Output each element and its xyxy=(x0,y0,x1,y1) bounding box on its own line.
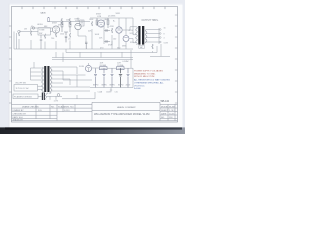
label LEVEL xyxy=(31,24,49,28)
filament wire xyxy=(38,95,42,97)
pilot lamp PL1 xyxy=(57,94,60,97)
svg-text:16: 16 xyxy=(164,28,166,30)
choke L1 xyxy=(100,67,108,70)
svg-text:1M: 1M xyxy=(24,29,27,31)
resistor R8 network xyxy=(80,20,85,26)
svg-text:HEATH COMPANY: HEATH COMPANY xyxy=(117,106,136,109)
label 5V4G xyxy=(79,66,85,68)
red note text xyxy=(134,69,163,78)
svg-text:117V 60 CY. AC: 117V 60 CY. AC xyxy=(16,87,30,90)
feedback wire xyxy=(63,49,153,62)
svg-text:TRACED BY: TRACED BY xyxy=(13,118,24,121)
svg-text:470K: 470K xyxy=(110,26,115,28)
tube V1 6SN7 xyxy=(52,26,59,33)
svg-text:OUTPUT TRNS.: OUTPUT TRNS. xyxy=(142,20,159,22)
svg-text:LEVEL: LEVEL xyxy=(37,24,43,26)
svg-text:TONE: TONE xyxy=(39,30,45,32)
svg-text:1 OF 1: 1 OF 1 xyxy=(169,110,176,112)
filter capacitor C10 xyxy=(127,68,130,87)
svg-text:GTB: GTB xyxy=(97,16,102,18)
coupling capacitor C5 xyxy=(104,40,110,42)
tube V2 6SN7 xyxy=(75,23,81,29)
output transformer T2 secondary winding xyxy=(145,30,147,44)
svg-text:8MFD: 8MFD xyxy=(110,85,116,87)
svg-text:GTB: GTB xyxy=(75,21,80,23)
resistor R10 xyxy=(96,18,98,26)
svg-text:6AU6: 6AU6 xyxy=(41,12,47,15)
filter capacitor C7 xyxy=(103,68,106,87)
label V1 xyxy=(52,23,58,25)
svg-text:470K: 470K xyxy=(108,45,113,47)
svg-text:SW: SW xyxy=(39,33,42,35)
svg-text:10-55: 10-55 xyxy=(169,113,175,115)
svg-text:NO.: NO. xyxy=(51,106,55,108)
ground rail (amp) xyxy=(14,48,133,50)
resistor R4 xyxy=(44,34,46,49)
output tube V5 5881 xyxy=(123,36,129,42)
svg-text:(2) 5881: (2) 5881 xyxy=(108,15,116,17)
resistor R11 xyxy=(107,18,109,28)
label box xyxy=(139,45,145,48)
ground symbol xyxy=(110,88,112,93)
coupling capacitor C4 xyxy=(104,29,110,31)
output transformer T2 core xyxy=(138,26,144,45)
B+ wire between chokes xyxy=(107,67,117,69)
screen wires xyxy=(104,18,126,49)
power transformer T1 core xyxy=(44,66,49,92)
feedback resistor R14 xyxy=(152,44,154,53)
svg-text:DRAWN CHECKED: DRAWN CHECKED xyxy=(22,105,39,108)
left section vertical wires xyxy=(14,32,22,50)
filament note text xyxy=(14,95,32,98)
label 6.3V xyxy=(47,93,59,102)
svg-text:5V4G: 5V4G xyxy=(79,66,85,68)
terminal labels xyxy=(164,28,169,45)
svg-text:DWG. NO.: DWG. NO. xyxy=(64,106,74,108)
capacitor value labels xyxy=(93,85,131,87)
B+ rail (right) xyxy=(90,17,133,19)
pilot lamp wire xyxy=(47,96,63,100)
svg-text:8MFD: 8MFD xyxy=(93,85,99,87)
svg-text:NO.: NO. xyxy=(161,117,165,119)
svg-text:X-113: X-113 xyxy=(64,110,70,112)
label 6.3VAC xyxy=(123,60,130,63)
label feedback xyxy=(140,46,144,49)
svg-text:DRAWN BY: DRAWN BY xyxy=(13,109,25,112)
svg-text:ALL RESISTORS 1/2 WATT UNLESS: ALL RESISTORS 1/2 WATT UNLESS xyxy=(134,79,170,82)
svg-text:WITH 11 MEG VTVM: WITH 11 MEG VTVM xyxy=(134,76,155,78)
svg-text:SHEET: SHEET xyxy=(161,110,169,112)
label OUTPUT TRNS xyxy=(142,20,159,22)
resistor R2 xyxy=(30,29,32,49)
dropping resistor R16 xyxy=(48,17,50,22)
wire input to grid xyxy=(20,31,52,33)
svg-text:4: 4 xyxy=(164,37,165,39)
label V4 xyxy=(108,13,121,18)
power transformer T1 primary winding xyxy=(42,67,44,93)
phase splitter labels xyxy=(88,31,100,37)
grid resistors R12 R13 xyxy=(111,28,113,49)
blue note text xyxy=(134,79,170,90)
svg-text:MEASURED TO GND.: MEASURED TO GND. xyxy=(134,72,156,75)
power supply ground rail xyxy=(90,87,133,89)
filament transformer T3 core xyxy=(42,93,45,101)
choke L2 xyxy=(117,67,125,70)
heater run wire xyxy=(62,92,95,99)
resistor R9 xyxy=(91,22,93,50)
svg-text:CHECKED BY: CHECKED BY xyxy=(13,113,27,115)
value label 470K xyxy=(24,29,45,35)
label choke L2 xyxy=(117,63,124,67)
filament transformer T3 winding xyxy=(46,93,47,99)
svg-text:C15: C15 xyxy=(115,92,118,94)
speaker terminal strip xyxy=(159,28,161,44)
tube type label 6AU6 xyxy=(41,12,47,15)
tube V3 6SN7 xyxy=(97,20,104,27)
svg-text:117V: 117V xyxy=(54,101,59,103)
svg-text:8: 8 xyxy=(164,33,165,35)
svg-text:COM: COM xyxy=(164,43,169,45)
cathode resistor R7 xyxy=(55,31,57,49)
filter capacitor C8 xyxy=(111,68,114,87)
plate wires to output transformer xyxy=(123,18,137,43)
power transformer T1 secondary winding xyxy=(50,67,52,93)
B+ output wire xyxy=(124,50,133,88)
plate resistor R5 xyxy=(61,18,63,32)
svg-text:1500: 1500 xyxy=(60,34,64,36)
svg-text:OTHERWISE SPECIFIED. ALL: OTHERWISE SPECIFIED. ALL xyxy=(134,82,165,85)
svg-text:POWER SUPPLY VOLTAGES: POWER SUPPLY VOLTAGES xyxy=(134,69,163,72)
filter capacitor C6 xyxy=(94,68,97,87)
capacitor C3 xyxy=(85,42,87,49)
svg-text:450V: 450V xyxy=(126,85,131,87)
wire interstage xyxy=(78,18,86,43)
label choke L1 xyxy=(100,63,107,67)
svg-text:6SN7: 6SN7 xyxy=(52,23,58,25)
rectifier tube V6 xyxy=(85,65,91,71)
heater supply wires xyxy=(52,52,133,60)
svg-text:200MA: 200MA xyxy=(100,64,107,67)
grid resistor R17 xyxy=(69,33,71,49)
AC line box 117V xyxy=(14,85,43,92)
svg-text:MODEL: MODEL xyxy=(161,106,169,108)
svg-text:150MA: 150MA xyxy=(117,64,124,67)
svg-text:W-3M: W-3M xyxy=(169,106,175,108)
AC line wires xyxy=(31,62,43,80)
svg-text:.05: .05 xyxy=(31,26,34,28)
label V5 xyxy=(100,30,134,50)
rectifier output wire xyxy=(89,63,100,72)
input network box xyxy=(38,28,50,35)
svg-text:ON-OFF SW: ON-OFF SW xyxy=(15,83,26,85)
svg-text:100K: 100K xyxy=(95,34,100,36)
level control R15 xyxy=(32,27,34,29)
label V3 xyxy=(96,14,102,19)
filter capacitor C9 xyxy=(119,68,122,87)
secondary tap wires xyxy=(146,30,159,43)
svg-text:595-134: 595-134 xyxy=(161,101,170,103)
resistor R1 xyxy=(18,31,20,49)
rectifier plate wires xyxy=(63,67,77,87)
label stage values xyxy=(51,20,71,41)
svg-text:WILLIAMSON TYPE AMPLIFIER MODE: WILLIAMSON TYPE AMPLIFIER MODEL W-3M xyxy=(94,112,149,116)
output tube V4 5881 xyxy=(116,27,122,33)
svg-text:100K: 100K xyxy=(89,19,94,21)
plate resistor R6 xyxy=(69,18,71,32)
svg-text:K=1000: K=1000 xyxy=(134,88,141,90)
coupling capacitor C2 xyxy=(64,32,68,42)
output transformer T2 primary winding xyxy=(136,27,138,45)
label 117V AC xyxy=(15,83,30,90)
capacitor C1 xyxy=(40,35,42,49)
svg-text:R.S.: R.S. xyxy=(38,110,42,112)
label splitter values xyxy=(89,19,116,46)
filament note box xyxy=(13,94,38,99)
svg-text:6.3VAC: 6.3VAC xyxy=(123,60,130,63)
svg-text:750: 750 xyxy=(51,38,54,40)
cap designator labels xyxy=(98,91,118,94)
svg-text:8MFD: 8MFD xyxy=(102,85,108,87)
label V2 xyxy=(75,18,81,22)
svg-text:6.3V: 6.3V xyxy=(47,93,52,95)
secondary lead wires xyxy=(51,67,92,91)
svg-text:DATE: DATE xyxy=(161,112,167,115)
speaker common wire xyxy=(150,44,170,56)
svg-text:FILAMENT WIRING: FILAMENT WIRING xyxy=(14,95,32,98)
level control wire xyxy=(30,27,52,29)
svg-text:.05: .05 xyxy=(68,39,71,41)
svg-text:100: 100 xyxy=(113,39,116,41)
input jack J1 xyxy=(18,30,21,33)
B+ rail (left) xyxy=(48,21,90,23)
svg-text:8MFD: 8MFD xyxy=(118,85,124,87)
